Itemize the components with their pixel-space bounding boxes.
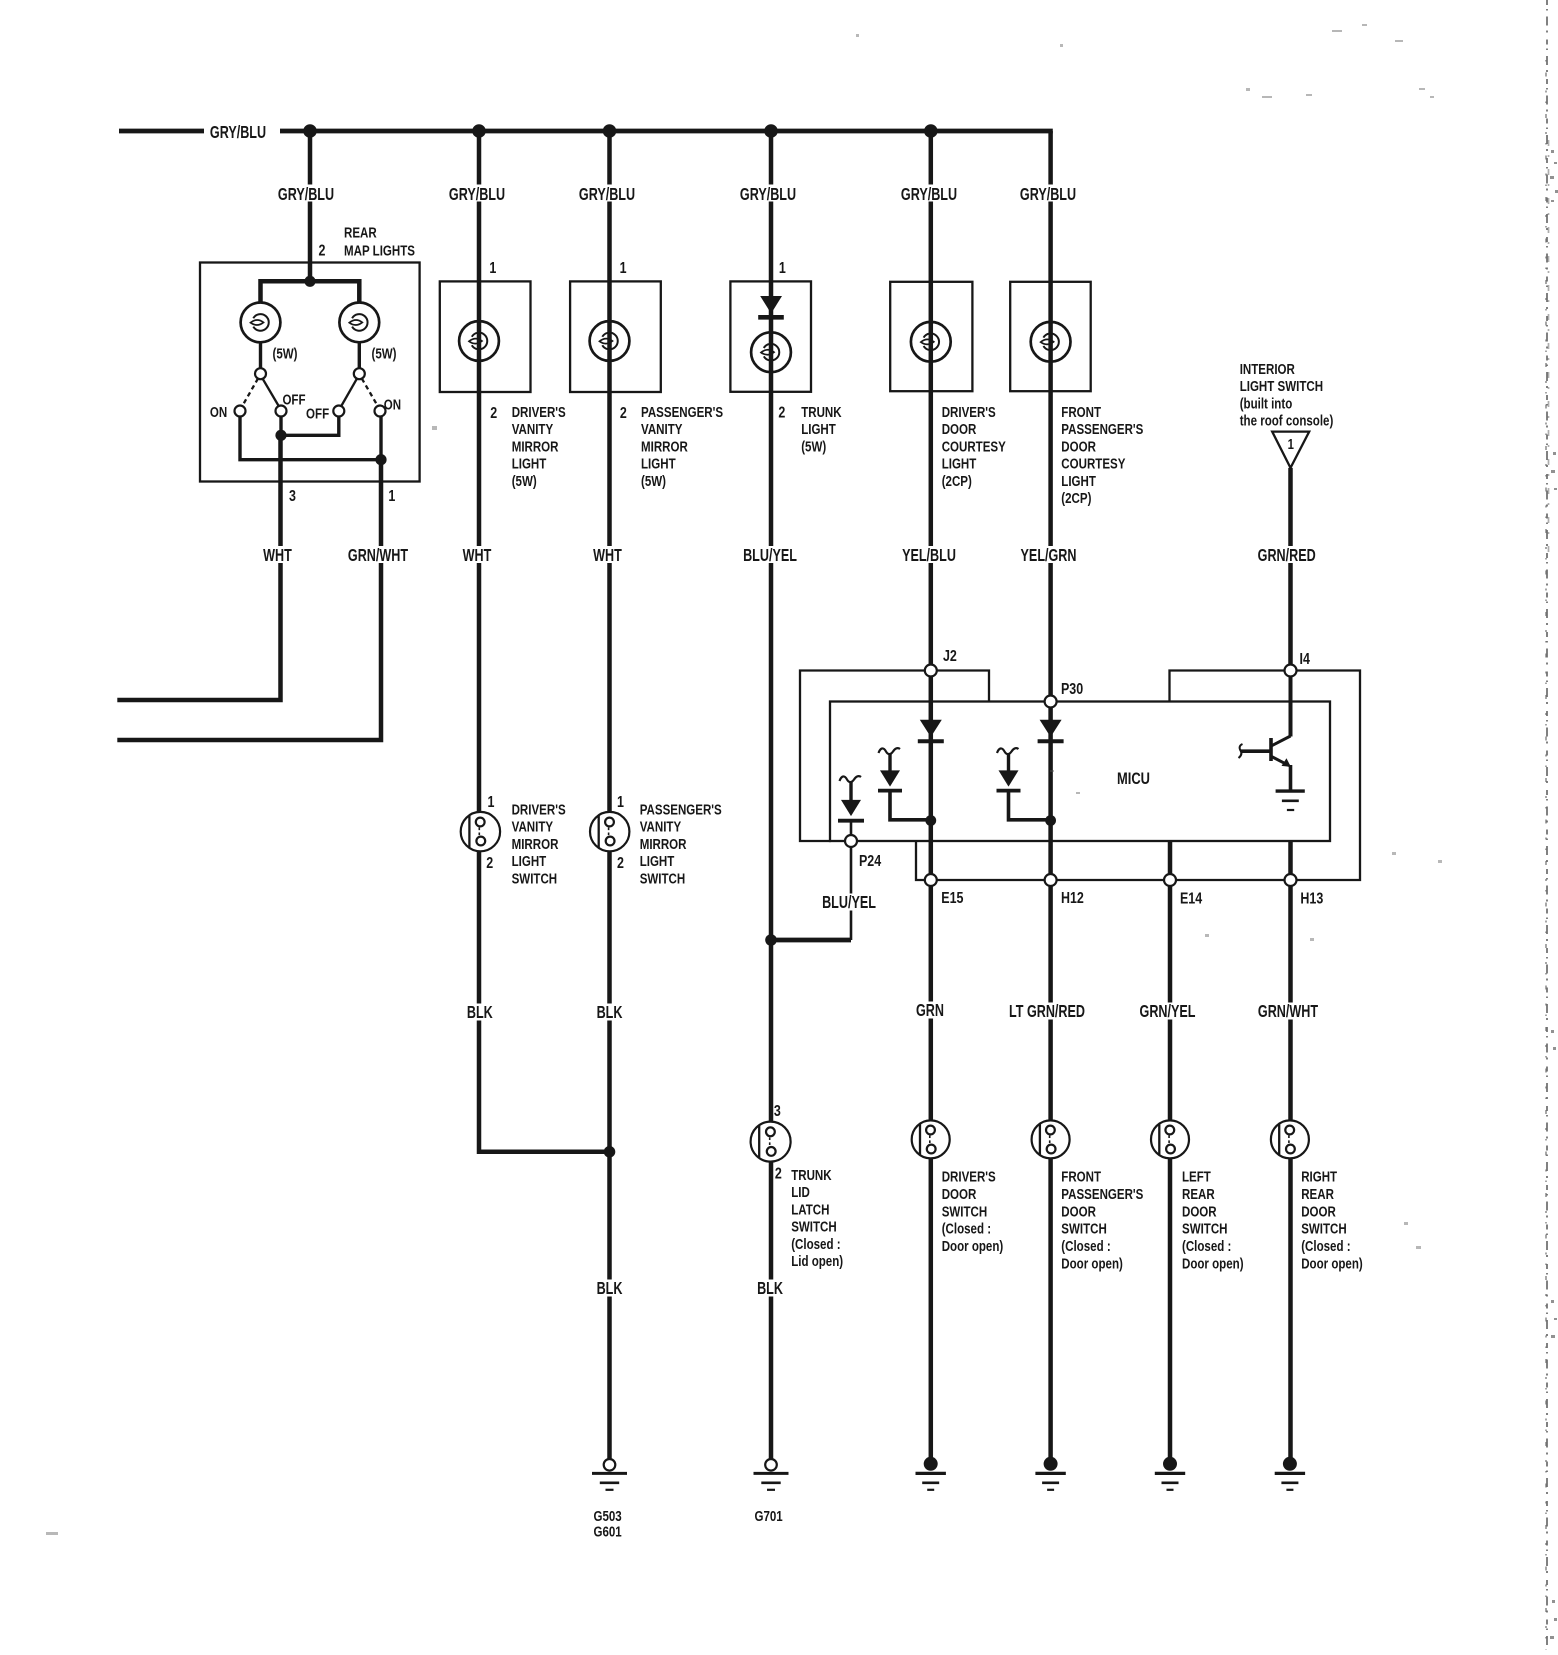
svg-text:SWITCH: SWITCH bbox=[1061, 1220, 1107, 1237]
net label: GRN (driver's door switch wire) bbox=[915, 1001, 945, 1021]
switch: passenger's vanity mirror light switch bbox=[590, 812, 629, 851]
net label: WHT (passenger's vanity) bbox=[592, 546, 623, 566]
connector boundary: upper-left (J2/P24 side) bbox=[800, 671, 989, 842]
ground: left rear door switch chassis ground bbox=[1155, 1457, 1185, 1490]
wire: GRY/BLU drop to rear map lights (node x=310) bbox=[308, 131, 313, 281]
svg-text:MIRROR: MIRROR bbox=[641, 438, 688, 455]
diode D1 on J2-E15 line bbox=[920, 720, 942, 737]
svg-text:GRY/BLU: GRY/BLU bbox=[579, 185, 635, 205]
wire: left switch blade (to OFF, solid) bbox=[263, 379, 280, 407]
svg-text:J2: J2 bbox=[943, 648, 957, 666]
pin 1 label (interior light switch triangle) bbox=[1288, 436, 1294, 453]
svg-text:SWITCH: SWITCH bbox=[791, 1218, 837, 1235]
component label: FRONT PASSENGER'S DOOR SWITCH (Closed : Door open) bbox=[1061, 1168, 1143, 1272]
svg-text:VANITY: VANITY bbox=[641, 421, 683, 438]
svg-text:YEL/BLU: YEL/BLU bbox=[902, 546, 956, 566]
svg-text:MIRROR: MIRROR bbox=[512, 835, 559, 852]
node H12 bbox=[1045, 874, 1057, 886]
svg-text:DOOR: DOOR bbox=[942, 1185, 977, 1202]
wire: GRY/BLU drop to trunk light / BLU/YEL down to trunk latch (x=771) bbox=[769, 131, 774, 1122]
junction on bus at x=310 bbox=[303, 124, 317, 138]
wire: OFF-OFF link bbox=[281, 417, 339, 436]
svg-text:DOOR: DOOR bbox=[1301, 1203, 1336, 1220]
svg-text:Door open): Door open) bbox=[1182, 1255, 1244, 1272]
pin 2 label (passenger's vanity switch) bbox=[617, 855, 624, 873]
svg-text:LIGHT: LIGHT bbox=[641, 455, 676, 472]
pin 2 label (passenger's vanity light) bbox=[620, 405, 627, 423]
svg-text:VANITY: VANITY bbox=[640, 818, 682, 835]
svg-text:I4: I4 bbox=[1300, 651, 1310, 669]
svg-text:SWITCH: SWITCH bbox=[1182, 1220, 1228, 1237]
svg-text:3: 3 bbox=[774, 1103, 781, 1121]
component label: REAR MAP LIGHTS bbox=[344, 224, 415, 259]
svg-text:DRIVER'S: DRIVER'S bbox=[512, 404, 566, 421]
svg-text:Lid open): Lid open) bbox=[791, 1253, 843, 1270]
svg-text:SWITCH: SWITCH bbox=[640, 870, 686, 887]
svg-text:BLK: BLK bbox=[597, 1003, 623, 1023]
net label: YEL/BLU (driver's courtesy) bbox=[902, 546, 957, 566]
svg-text:GRY/BLU: GRY/BLU bbox=[278, 185, 334, 205]
junction rear map lights feed bbox=[304, 276, 315, 287]
component label: DRIVER'S VANITY MIRROR LIGHT SWITCH bbox=[512, 801, 566, 887]
net label: WHT (driver's vanity) bbox=[462, 546, 493, 566]
net label: GRY/BLU (trunk light drop) bbox=[739, 185, 798, 205]
net label: BLK (to G701) bbox=[756, 1279, 784, 1299]
svg-text:(2CP): (2CP) bbox=[1061, 490, 1091, 507]
svg-text:GRN/RED: GRN/RED bbox=[1258, 546, 1316, 566]
svg-text:SWITCH: SWITCH bbox=[512, 870, 558, 887]
svg-text:(Closed :: (Closed : bbox=[1301, 1238, 1350, 1255]
svg-text:1: 1 bbox=[620, 260, 627, 278]
wire: GRY/BLU drop to passenger's vanity light (x=609.5) bbox=[607, 131, 612, 812]
svg-text:VANITY: VANITY bbox=[512, 421, 554, 438]
switch: right rear door switch bbox=[1271, 1120, 1309, 1158]
svg-text:MAP LIGHTS: MAP LIGHTS bbox=[344, 242, 415, 259]
net label: GRY/BLU (front passenger courtesy drop) bbox=[1019, 185, 1078, 205]
node I4 bbox=[1285, 665, 1297, 677]
junction on bus at x=479 bbox=[472, 124, 486, 138]
component label: TRUNK LID LATCH SWITCH (Closed : Lid open) bbox=[791, 1167, 843, 1270]
switch: left rear door switch bbox=[1151, 1120, 1189, 1158]
component label: FRONT PASSENGER'S DOOR COURTESY LIGHT (2CP) bbox=[1061, 404, 1143, 507]
switch: front passenger's door switch bbox=[1032, 1120, 1070, 1158]
net label: YEL/GRN (front passenger courtesy) bbox=[1020, 546, 1077, 566]
svg-text:GRY/BLU: GRY/BLU bbox=[210, 123, 266, 143]
svg-text:DRIVER'S: DRIVER'S bbox=[942, 1168, 996, 1185]
box: driver's vanity mirror light bbox=[440, 281, 531, 392]
net label: GRY/BLU (rear map lights drop) bbox=[277, 185, 336, 205]
wire: left switch dashed throw (to ON) bbox=[242, 379, 258, 407]
component label: LEFT REAR DOOR SWITCH (Closed : Door open) bbox=[1182, 1168, 1244, 1272]
net label: GRY/BLU (driver's courtesy drop) bbox=[900, 185, 959, 205]
svg-text:LIGHT: LIGHT bbox=[512, 455, 547, 472]
svg-text:OFF: OFF bbox=[282, 391, 305, 408]
svg-text:LIGHT: LIGHT bbox=[512, 853, 547, 870]
svg-text:GRY/BLU: GRY/BLU bbox=[1020, 185, 1076, 205]
wire: right switch dashed throw (to ON) bbox=[362, 379, 378, 407]
svg-text:MICU: MICU bbox=[1117, 769, 1150, 788]
svg-text:WHT: WHT bbox=[263, 546, 292, 566]
wire: P30 through diode to H12 bbox=[1048, 708, 1053, 875]
switch position label: ON (left) bbox=[210, 404, 227, 421]
svg-text:TRUNK: TRUNK bbox=[791, 1167, 832, 1184]
net label: GRN/YEL (left rear door switch wire) bbox=[1139, 1002, 1196, 1022]
component label: INTERIOR LIGHT SWITCH (built into the roof console) bbox=[1240, 361, 1334, 429]
svg-text:G601: G601 bbox=[594, 1523, 623, 1540]
wire: ON-ON link bbox=[240, 417, 381, 460]
wire: BLU/YEL branch from trunk wire to P24 bbox=[771, 938, 851, 943]
svg-text:H12: H12 bbox=[1061, 890, 1084, 908]
node P30 bbox=[1045, 696, 1057, 708]
switch: driver's vanity mirror light switch bbox=[461, 812, 500, 851]
net label: GRY/BLU on top bus bbox=[204, 123, 280, 143]
bulb: driver's vanity mirror light bbox=[459, 321, 499, 361]
ground G503/G601 bbox=[592, 1459, 627, 1490]
node label: P24 bbox=[859, 853, 881, 871]
svg-text:VANITY: VANITY bbox=[512, 818, 554, 835]
switch position label: OFF (left) bbox=[282, 391, 305, 408]
svg-text:BLU/YEL: BLU/YEL bbox=[822, 893, 876, 913]
wire: BLK from driver's vanity switch down and over to passenger wire bbox=[479, 851, 610, 1152]
svg-text:DOOR: DOOR bbox=[1182, 1203, 1217, 1220]
pin 1 label (passenger's vanity light) bbox=[620, 260, 627, 278]
junction ON-ON link bbox=[375, 454, 386, 465]
svg-text:2: 2 bbox=[617, 855, 624, 873]
ground label: G503 G601 bbox=[594, 1508, 623, 1540]
component label: MICU bbox=[1117, 769, 1150, 788]
switch position label: OFF (right) bbox=[306, 405, 329, 422]
svg-text:(Closed :: (Closed : bbox=[942, 1220, 991, 1237]
svg-text:SWITCH: SWITCH bbox=[1301, 1220, 1347, 1237]
svg-text:BLU/YEL: BLU/YEL bbox=[743, 546, 797, 566]
node E14 bbox=[1164, 874, 1176, 886]
node E15 bbox=[925, 874, 937, 886]
junction vanity switch BLK wires bbox=[604, 1146, 616, 1158]
bulb: trunk light (5W) bbox=[751, 332, 791, 372]
bulb: front passenger's door courtesy light (2CP) bbox=[1031, 322, 1071, 362]
svg-text:DRIVER'S: DRIVER'S bbox=[942, 404, 996, 421]
svg-text:WHT: WHT bbox=[463, 546, 492, 566]
connector boundary: lower-right (E15,H12,E14,H13,I4 side) bbox=[916, 671, 1360, 881]
pin 2 label (driver's vanity light) bbox=[490, 405, 497, 423]
svg-text:(5W): (5W) bbox=[371, 345, 396, 362]
svg-text:GRY/BLU: GRY/BLU bbox=[901, 185, 957, 205]
svg-text:LIGHT: LIGHT bbox=[640, 853, 675, 870]
diode D4 on P30-H12 line bbox=[1040, 720, 1062, 737]
svg-text:LATCH: LATCH bbox=[791, 1201, 829, 1218]
svg-text:2: 2 bbox=[775, 1165, 782, 1183]
svg-text:LIGHT SWITCH: LIGHT SWITCH bbox=[1240, 378, 1323, 395]
svg-text:YEL/GRN: YEL/GRN bbox=[1021, 546, 1077, 566]
wire: right rear door switch wire H13 down bbox=[1288, 841, 1293, 1120]
wire: pin 3 WHT down from map lights bbox=[117, 435, 280, 700]
pin 1 label (trunk light) bbox=[779, 260, 786, 278]
junction OFF-OFF link bbox=[275, 430, 286, 441]
pin 2 label (rear map lights) bbox=[319, 242, 326, 260]
junction on bus at x=771 bbox=[764, 124, 778, 138]
svg-text:TRUNK: TRUNK bbox=[801, 404, 842, 421]
svg-text:INTERIOR: INTERIOR bbox=[1240, 361, 1295, 378]
svg-text:1: 1 bbox=[779, 260, 786, 278]
svg-text:DOOR: DOOR bbox=[1061, 438, 1096, 455]
svg-text:OFF: OFF bbox=[306, 405, 329, 422]
net label: BLU/YEL (trunk light) bbox=[743, 546, 798, 566]
switch position label: ON (right) bbox=[384, 396, 401, 413]
diode: trunk light internal diode bbox=[760, 296, 782, 314]
junction on bus at x=930.8 bbox=[924, 124, 938, 138]
net label: BLK (to G503/G601) bbox=[596, 1279, 624, 1299]
wire: BLK passenger's vanity switch down to ground G503/G601 bbox=[607, 851, 612, 1459]
svg-text:(5W): (5W) bbox=[272, 345, 297, 362]
svg-text:Door open): Door open) bbox=[1061, 1255, 1123, 1272]
switch: trunk lid latch switch bbox=[751, 1122, 791, 1162]
svg-text:GRY/BLU: GRY/BLU bbox=[449, 185, 505, 205]
contact: right map switch OFF bbox=[333, 406, 344, 417]
component label: PASSENGER'S VANITY MIRROR LIGHT (5W) bbox=[641, 404, 723, 490]
svg-text:1: 1 bbox=[488, 794, 495, 812]
wire: driver's door switch wire E15 down to switch and ground bbox=[929, 886, 934, 1120]
svg-text:MIRROR: MIRROR bbox=[640, 835, 687, 852]
node H13 bbox=[1285, 874, 1297, 886]
box: front passenger's door courtesy light bbox=[1010, 282, 1090, 391]
svg-text:FRONT: FRONT bbox=[1061, 404, 1101, 421]
wire: rear map lights internal top bus bbox=[261, 281, 360, 302]
net label: GRY/BLU (driver's vanity drop) bbox=[448, 185, 507, 205]
svg-text:GRY/BLU: GRY/BLU bbox=[740, 185, 796, 205]
svg-text:LT GRN/RED: LT GRN/RED bbox=[1009, 1002, 1085, 1022]
pin 1 label (driver's vanity light) bbox=[489, 260, 496, 278]
junction MICU diode D2 to J2 line bbox=[925, 815, 936, 826]
svg-text:Door open): Door open) bbox=[942, 1238, 1004, 1255]
svg-text:(5W): (5W) bbox=[801, 438, 826, 455]
wire: GRN/RED interior light switch to I4 bbox=[1288, 468, 1293, 665]
svg-text:(2CP): (2CP) bbox=[942, 472, 972, 489]
diode D3 with torn-wire top (above P24) bbox=[838, 776, 864, 835]
node label: P30 bbox=[1061, 681, 1083, 699]
ground: driver's door switch chassis ground bbox=[916, 1457, 946, 1490]
svg-text:2: 2 bbox=[490, 405, 497, 423]
svg-text:WHT: WHT bbox=[593, 546, 622, 566]
svg-text:GRN/YEL: GRN/YEL bbox=[1140, 1002, 1196, 1022]
net label: BLK (passenger's vanity switch wire) bbox=[596, 1003, 624, 1023]
wire: right bulb to switch contact bbox=[358, 343, 361, 368]
ground: front passenger's door switch chassis ground bbox=[1035, 1457, 1065, 1490]
svg-text:LIGHT: LIGHT bbox=[1061, 472, 1096, 489]
svg-text:PASSENGER'S: PASSENGER'S bbox=[640, 801, 722, 818]
transistor Q1 (NPN, collector to I4, emitter to internal ground) bbox=[1239, 677, 1305, 811]
scan noise artifacts (decorative) bbox=[1546, 0, 1549, 1650]
svg-text:P30: P30 bbox=[1061, 681, 1083, 699]
svg-text:G701: G701 bbox=[755, 1508, 784, 1525]
svg-text:GRN/WHT: GRN/WHT bbox=[348, 546, 409, 566]
net label: GRN/RED (interior light switch) bbox=[1257, 546, 1317, 566]
svg-text:1: 1 bbox=[617, 794, 624, 812]
wire: GRY/BLU top bus bbox=[119, 129, 1053, 134]
contact: left map switch ON bbox=[235, 406, 246, 417]
svg-text:REAR: REAR bbox=[1182, 1185, 1215, 1202]
svg-text:P24: P24 bbox=[859, 853, 881, 871]
wire: pin 1 GRN/WHT down from map lights bbox=[117, 460, 381, 740]
svg-text:(5W): (5W) bbox=[641, 472, 666, 489]
svg-text:H13: H13 bbox=[1300, 890, 1323, 908]
node label: E15 bbox=[941, 890, 963, 908]
svg-text:(Closed :: (Closed : bbox=[791, 1235, 840, 1252]
junction on bus at x=609.5 bbox=[603, 124, 617, 138]
svg-text:LIGHT: LIGHT bbox=[942, 455, 977, 472]
svg-text:REAR: REAR bbox=[344, 224, 377, 241]
svg-text:3: 3 bbox=[289, 488, 296, 506]
diode D5 with torn-wire top (left of P30 line) bbox=[997, 748, 1051, 820]
svg-text:FRONT: FRONT bbox=[1061, 1168, 1101, 1185]
ground: right rear door switch chassis ground bbox=[1275, 1457, 1305, 1490]
junction MICU diode D5 to P30 line bbox=[1045, 815, 1056, 826]
component label: PASSENGER'S VANITY MIRROR LIGHT SWITCH bbox=[640, 801, 722, 887]
svg-text:REAR: REAR bbox=[1301, 1185, 1334, 1202]
node label: I4 bbox=[1300, 651, 1310, 669]
svg-text:2: 2 bbox=[778, 404, 785, 422]
wire: front passenger door switch wire H12 down bbox=[1048, 886, 1053, 1120]
net label: LT GRN/RED (front passenger door switch wire) bbox=[1008, 1002, 1087, 1022]
svg-text:(Closed :: (Closed : bbox=[1061, 1238, 1110, 1255]
svg-text:Door open): Door open) bbox=[1301, 1255, 1363, 1272]
svg-text:PASSENGER'S: PASSENGER'S bbox=[1061, 421, 1143, 438]
net label: GRY/BLU (passenger's vanity drop) bbox=[578, 185, 637, 205]
svg-text:(5W): (5W) bbox=[512, 472, 537, 489]
svg-text:DOOR: DOOR bbox=[1061, 1203, 1096, 1220]
wire: left rear door switch wire E14 down bbox=[1168, 841, 1173, 1120]
svg-text:RIGHT: RIGHT bbox=[1301, 1168, 1338, 1185]
svg-text:BLK: BLK bbox=[597, 1279, 623, 1299]
pin 1 label (passenger's vanity switch) bbox=[617, 794, 624, 812]
node P24 bbox=[845, 835, 857, 847]
svg-text:DRIVER'S: DRIVER'S bbox=[512, 801, 566, 818]
svg-text:E15: E15 bbox=[941, 890, 963, 908]
svg-text:G503: G503 bbox=[594, 1508, 622, 1525]
interior light switch triangle connector pin 1 bbox=[1272, 432, 1309, 468]
svg-text:GRN/WHT: GRN/WHT bbox=[1258, 1002, 1319, 1022]
wire: J2 through diode to E15 bbox=[929, 677, 934, 875]
pin 3 label (trunk lid latch switch) bbox=[774, 1103, 781, 1121]
svg-text:(built into: (built into bbox=[1240, 395, 1293, 412]
svg-text:ON: ON bbox=[210, 404, 227, 421]
value label: (5W) left map bulb bbox=[272, 345, 297, 362]
svg-text:MIRROR: MIRROR bbox=[512, 438, 559, 455]
svg-text:PASSENGER'S: PASSENGER'S bbox=[641, 404, 723, 421]
component label: DRIVER'S DOOR SWITCH (Closed : Door open) bbox=[942, 1168, 1004, 1254]
value label: (5W) right map bulb bbox=[371, 345, 396, 362]
svg-text:1: 1 bbox=[388, 488, 395, 506]
ground label: G701 bbox=[755, 1508, 784, 1525]
wire: left bulb to switch contact bbox=[259, 343, 262, 368]
box: rear map lights component bbox=[200, 263, 420, 482]
net label: GRN/WHT (pin 1 wire) bbox=[347, 546, 409, 566]
component label: TRUNK LIGHT (5W) bbox=[801, 404, 842, 455]
pin 2 label (trunk light) bbox=[778, 404, 785, 422]
pin 2 label (trunk lid latch switch) bbox=[775, 1165, 782, 1183]
node label: H12 bbox=[1061, 890, 1084, 908]
svg-text:1: 1 bbox=[1288, 436, 1294, 453]
wire: right switch blade (to OFF, solid) bbox=[341, 379, 357, 407]
svg-text:2: 2 bbox=[486, 855, 493, 873]
node label: J2 bbox=[943, 648, 957, 666]
bulb: rear map light left (5W) bbox=[241, 303, 281, 343]
box: MICU unit bbox=[830, 702, 1330, 842]
svg-text:2: 2 bbox=[620, 405, 627, 423]
component label: DRIVER'S VANITY MIRROR LIGHT (5W) bbox=[512, 404, 566, 490]
wire: GRY/BLU drop to driver's door courtesy light, YEL/BLU to J2 (x=930.8) bbox=[929, 131, 934, 665]
wire: GRY/BLU drop to front passenger courtesy light, YEL/GRN to P30 (x=1050.6) bbox=[1048, 131, 1053, 696]
diode D2 with torn-wire top (left of J2 line) bbox=[878, 748, 931, 820]
node label: H13 bbox=[1300, 890, 1323, 908]
pin 1 label (driver's vanity switch) bbox=[488, 794, 495, 812]
svg-text:LIGHT: LIGHT bbox=[801, 421, 836, 438]
svg-text:(Closed :: (Closed : bbox=[1182, 1238, 1231, 1255]
svg-text:BLK: BLK bbox=[757, 1279, 783, 1299]
component label: RIGHT REAR DOOR SWITCH (Closed : Door open) bbox=[1301, 1168, 1363, 1272]
box: driver's door courtesy light bbox=[890, 282, 972, 391]
bulb: passenger's vanity mirror light bbox=[590, 321, 630, 361]
ground G701 bbox=[754, 1459, 789, 1490]
svg-text:COURTESY: COURTESY bbox=[942, 438, 1006, 455]
net label: BLU/YEL (P24 branch) bbox=[822, 893, 877, 913]
svg-text:LEFT: LEFT bbox=[1182, 1168, 1212, 1185]
wire: BLK trunk latch switch to ground G701 bbox=[769, 1162, 774, 1459]
contact: right map switch common bbox=[354, 368, 365, 379]
box: trunk light bbox=[730, 281, 811, 391]
node J2 bbox=[925, 665, 937, 677]
svg-text:LID: LID bbox=[791, 1184, 810, 1201]
net label: BLK (driver's vanity switch wire) bbox=[466, 1003, 494, 1023]
svg-text:the roof console): the roof console) bbox=[1240, 412, 1334, 429]
pin 1 label (map lights) bbox=[388, 488, 395, 506]
switch: driver's door switch bbox=[912, 1120, 950, 1158]
svg-text:BLK: BLK bbox=[467, 1003, 493, 1023]
pin 3 label bbox=[289, 488, 296, 506]
svg-text:SWITCH: SWITCH bbox=[942, 1203, 988, 1220]
svg-text:ON: ON bbox=[384, 396, 401, 413]
net label: GRN/WHT (right rear door switch wire) bbox=[1257, 1002, 1319, 1022]
svg-text:DOOR: DOOR bbox=[942, 421, 977, 438]
box: passenger's vanity mirror light bbox=[570, 281, 661, 392]
wire: GRY/BLU drop to driver's vanity light (x=479) bbox=[477, 131, 482, 812]
component label: DRIVER'S DOOR COURTESY LIGHT (2CP) bbox=[942, 404, 1006, 490]
svg-text:GRN: GRN bbox=[916, 1001, 944, 1021]
junction trunk wire / BLU/YEL branch bbox=[765, 934, 777, 946]
contact: left map switch common bbox=[255, 368, 266, 379]
net label: WHT (pin 3 wire) bbox=[262, 546, 293, 566]
node label: E14 bbox=[1180, 890, 1202, 908]
bulb: rear map light right (5W) bbox=[339, 303, 379, 343]
svg-text:2: 2 bbox=[319, 242, 326, 260]
contact: left map switch OFF bbox=[276, 406, 287, 417]
svg-text:E14: E14 bbox=[1180, 890, 1202, 908]
pin 2 label (driver's vanity switch) bbox=[486, 855, 493, 873]
bulb: driver's door courtesy light (2CP) bbox=[911, 322, 951, 362]
svg-text:COURTESY: COURTESY bbox=[1061, 455, 1125, 472]
contact: right map switch ON bbox=[375, 406, 386, 417]
svg-text:1: 1 bbox=[489, 260, 496, 278]
svg-text:PASSENGER'S: PASSENGER'S bbox=[1061, 1185, 1143, 1202]
